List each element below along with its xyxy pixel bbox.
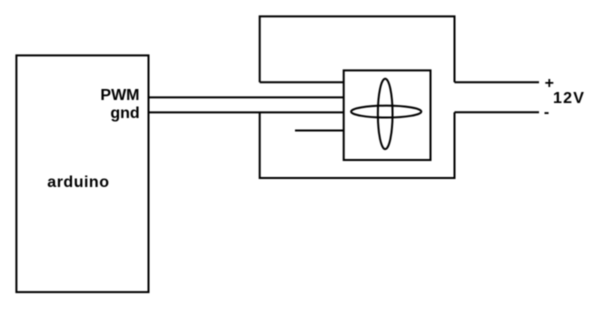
svg-text:-: - [544, 104, 549, 121]
svg-text:arduino: arduino [47, 174, 109, 191]
svg-text:12V: 12V [553, 90, 585, 107]
svg-text:gnd: gnd [110, 105, 139, 122]
svg-text:PWM: PWM [100, 87, 139, 104]
